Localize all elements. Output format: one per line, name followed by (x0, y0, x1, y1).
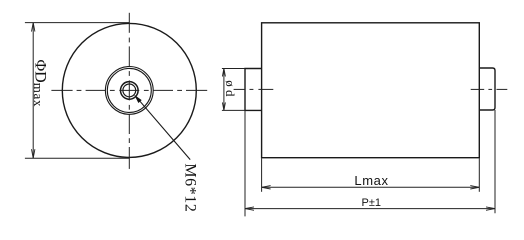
body rectangle of side view (262, 23, 480, 158)
dimension od: bottom extension line (222, 109, 245, 111)
dimension od: bottom arrowhead (222, 102, 225, 110)
dimension Lmax: left arrowhead (262, 186, 271, 189)
leader line to M6*12 (140, 101, 190, 159)
right terminal stub (479, 68, 495, 110)
terminal inner circle (123, 84, 136, 97)
dimension P: left extension line (244, 110, 246, 216)
dimension od: top extension line (222, 68, 245, 70)
dimension P: left arrowhead (245, 207, 254, 210)
svg-text:ø d: ø d (223, 80, 238, 97)
dimension Lmax: right arrowhead (470, 186, 479, 189)
left view: capacitor front outline circle (62, 23, 196, 157)
right stub centerline (471, 88, 508, 90)
dimension PhiDmax: bottom arrowhead (32, 149, 35, 158)
dimension Lmax: dimension line (262, 186, 480, 188)
svg-text:M6*12: M6*12 (181, 163, 198, 212)
dimension PhiDmax: top arrowhead (32, 23, 35, 32)
dimension od: dimension line (223, 69, 225, 111)
svg-text:ΦDmax: ΦDmax (31, 60, 48, 108)
left terminal stub (245, 69, 262, 111)
dimension Lmax: right extension line (478, 158, 480, 191)
boss outer circle (105, 67, 153, 115)
dimension Lmax: left extension line (261, 158, 263, 191)
left stub centerline (234, 88, 274, 90)
svg-text:P±1: P±1 (362, 197, 382, 209)
boss inner circle (107, 68, 151, 112)
dimension P: right arrowhead (486, 207, 495, 210)
dimension P: right extension line (494, 110, 496, 213)
horizontal centerline of front view (51, 89, 207, 91)
dimension PhiDmax: bottom extension line (25, 157, 130, 159)
leader arrowhead at terminal (134, 95, 142, 103)
vertical centerline of front view (128, 13, 130, 169)
dimension od: top arrowhead (222, 69, 225, 77)
dimension P: dimension line (245, 208, 495, 210)
terminal outer circle (121, 82, 139, 100)
dimension PhiDmax: dimension line (32, 23, 34, 159)
dimension PhiDmax: top extension line (25, 22, 130, 24)
svg-text:Lmax: Lmax (354, 173, 388, 188)
